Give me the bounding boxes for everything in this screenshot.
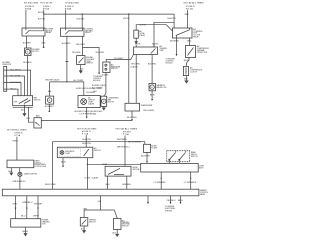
label to engine control module [166,59,176,65]
wire pressure switch down BLU/RED [104,73,106,97]
label indicator light [65,150,75,155]
label light assy [199,165,204,169]
svg-text:HOT AT ALL TIMES: HOT AT ALL TIMES [116,128,139,131]
label mode switch [133,167,140,171]
wire A/C-heater illumination rail [53,142,145,190]
wire panel out 3 GRN/WHT [37,196,39,219]
wire transistor to ground [24,227,26,233]
label A/C compressor clutch relay [193,28,203,39]
svg-text:BLK/YEL: BLK/YEL [168,18,177,20]
wire panel mid out GRN [84,196,117,219]
wire indicator right pin to LT GRN rail [88,158,141,190]
label power transistor [42,220,50,226]
motor M blower motor [25,48,32,56]
svg-text:BLK/YEL: BLK/YEL [45,184,56,186]
fuse 1 [43,6,50,11]
motor M condenser fan motor [101,96,107,106]
label to engine electrical system [165,206,175,213]
wire clutch to ground [186,76,188,81]
switch S thermo switch [80,218,88,227]
wire bus drop BLK/YEL (x128.8) [128,14,130,103]
svg-text:(CALIF): (CALIF) [139,34,145,37]
svg-text:BLU/WHT: BLU/WHT [45,106,55,108]
svg-text:SYSTEM: SYSTEM [165,210,173,212]
wire controller left pin to ground [10,168,12,173]
motor M recirculation control motor [46,96,54,104]
svg-text:OTHERS): OTHERS) [79,113,97,115]
wire panel out 1 GRN [15,196,17,219]
ground G diode [135,41,138,44]
svg-text:YEL/GRN: YEL/GRN [95,52,104,54]
svg-text:BLK/YEL: BLK/YEL [123,18,130,20]
svg-text:THERMOSTAT: THERMOSTAT [141,104,153,107]
svg-text:SWITCH: SWITCH [111,68,118,70]
switch S rear defogger switches (dashed) [167,151,190,162]
label GRN/WHT 2-line [92,84,106,89]
svg-text:BLU/WHT: BLU/WHT [23,43,32,45]
relay K2 condenser fan relay [61,28,85,36]
wire BLK/YEL bus [44,13,174,15]
node bus junction A [43,13,44,14]
wire relay3 right pin to thermal protector [189,38,191,46]
svg-text:SWITCH: SWITCH [122,225,129,227]
svg-text:BLU/RED: BLU/RED [127,117,138,119]
svg-text:YEL/WHT: YEL/WHT [114,58,125,60]
svg-text:PANEL: PANEL [200,193,205,196]
connector heater control panel (long box) [2,189,199,196]
svg-text:ALL OTHERS: ALL OTHERS [74,79,84,82]
switch S heater fan switch [13,96,33,106]
svg-text:RED/WHT (CALIF): RED/WHT (CALIF) [45,79,59,82]
svg-text:BLK/YEL: BLK/YEL [38,18,45,20]
wire relay3 left pin BLK/RED with arrow [176,38,178,54]
wire blower motor to fan switch BLU/BLK [27,56,29,96]
coil A/C compressor clutch [183,66,188,75]
svg-text:HOT IN ON: HOT IN ON [41,2,53,4]
label A/C switch [94,147,101,152]
svg-text:RELAY: RELAY [46,31,52,34]
svg-text:PROTECTOR: PROTECTOR [197,52,208,54]
motor M radiator fan motor [149,83,155,90]
wire light assy pins to panel [161,172,191,189]
wire fuse to relay2 [65,10,67,28]
switch S engine coolant temp switch [77,56,85,65]
svg-text:FAN MOTOR: FAN MOTOR [156,86,167,89]
svg-text:OFF: OFF [14,102,17,104]
switch S A/C pressure switch [103,62,110,73]
ground G aux switch [115,234,119,237]
wire fuse25 to mode switch [124,136,126,167]
svg-text:LT GRN: LT GRN [84,178,91,180]
fuse 4 [65,6,73,11]
junction box A/C wiring [125,103,140,111]
wire junction box down to A/C line with arrow [131,111,133,118]
svg-text:BLK/RED: BLK/RED [170,41,180,43]
svg-text:LT GRN/RED: LT GRN/RED [154,182,167,184]
label radiator fan motor [156,84,167,89]
wire A/C line horizontal [41,120,132,122]
svg-text:FILTER: FILTER [151,147,157,149]
wire defog pins to panel light box [169,151,186,164]
wire fan switch to A/C switch [28,107,34,122]
label fan switch [34,96,41,101]
svg-text:HOT AT ALL TIMES: HOT AT ALL TIMES [184,1,205,4]
node dot [151,99,153,101]
wire protector to clutch [187,58,190,67]
svg-text:MODULE: MODULE [166,63,174,65]
wire fan switch connector strip [13,106,33,108]
wire fuse24 to relay1 [25,10,27,28]
wire diode to ground [135,38,137,41]
svg-text:HOT IN ON OR START: HOT IN ON OR START [77,127,97,130]
label fuse13 block [77,127,97,145]
svg-text:ALL OTHERS: ALL OTHERS [92,86,103,89]
wire relay2 left pin BLU/RED [65,36,68,82]
wire resistor tap 3 [7,83,21,96]
svg-text:BLK/RED: BLK/RED [148,64,157,66]
svg-text:YEL/BLU: YEL/BLU [166,200,176,202]
wire motor to dot [151,91,153,99]
wire motor to dot [48,104,50,110]
box heater panel light assy [141,163,199,172]
label blower motor [32,49,40,53]
svg-text:WHT/BLU: WHT/BLU [117,139,128,141]
label A/C pressure switch [111,63,121,70]
label thermo switch [89,219,97,223]
svg-text:BLU/BLK: BLU/BLK [11,70,23,72]
node bus junction C [128,13,129,14]
fuse 24 [25,6,34,11]
label A/C compressor clutch [190,67,203,74]
diode D1 A/C diode [134,30,139,38]
svg-text:HOT AT ALL TIMES: HOT AT ALL TIMES [24,1,39,4]
svg-text:CONTROLLER: CONTROLLER [35,166,47,168]
svg-text:BLK/YEL: BLK/YEL [82,143,91,145]
svg-text:YEL/GRN: YEL/GRN [76,44,86,46]
svg-text:YEL/GRN: YEL/GRN [72,52,81,54]
label fuse25 block [116,128,139,149]
label condenser fan relay [85,29,93,35]
wire relay1 right pin to node [43,36,45,47]
wire calif/others branch [50,82,84,96]
svg-text:GRN/RED: GRN/RED [122,184,132,186]
wire fuse1 to relay1 [43,10,45,28]
label noise filter [151,145,157,149]
wire branch to thermostat right pin [154,22,174,47]
wire panel out YEL/BLU [170,196,172,202]
label aux switch [122,219,130,227]
svg-text:GRN/WHT: GRN/WHT [34,204,43,206]
label A/C diode [139,30,145,37]
wire fan switch ground pin [23,106,25,114]
wire resistor tap 2 [7,76,25,96]
svg-text:BLU/RED: BLU/RED [141,156,151,158]
label A/C compressor thermal protector [197,45,210,54]
box dash lights brightness controller [7,160,34,168]
label A/C thermostat [160,45,168,52]
svg-text:HOT AT ALL TIMES: HOT AT ALL TIMES [65,1,79,4]
wire indicator left pin to dot [62,158,64,166]
wire relay1 to blower motor BLU/WHT [26,36,28,48]
ground G clutch [185,81,189,84]
label heater control panel [200,189,208,196]
ground G condenser fan motor [102,108,106,111]
ground G controller [10,173,13,176]
label fuse26 block (bottom left) [7,129,28,137]
svg-text:YEL/GRN: YEL/GRN [131,64,141,66]
svg-text:STAT: STAT [160,49,164,52]
wire YEL/WHT pressure switch to thermostat [106,55,133,63]
svg-text:DASH LIGHTS: DASH LIGHTS [24,172,38,175]
wire aux to ground [116,230,118,235]
label blower resistor [3,62,12,66]
wire recirc motor feed [48,82,51,96]
wire A/C switch assembly to A/C line with arrow [86,108,88,118]
switch S A/C switch [34,118,41,128]
wire thermostat bottom-right BLK/RED [151,55,153,84]
ground G thermo switch [82,230,86,233]
svg-text:SWITCH: SWITCH [133,169,140,171]
label LT GRN pair [84,177,99,180]
box aux switch [114,219,122,230]
wire panel out BLU [180,196,182,202]
svg-text:MOTOR: MOTOR [32,51,39,53]
svg-text:BLU/RED: BLU/RED [62,43,71,45]
wire bus drop to relay2 [81,14,83,28]
svg-text:BLK/YEL: BLK/YEL [77,18,85,20]
svg-text:(CALIF): (CALIF) [88,102,94,105]
svg-text:BLK/YEL: BLK/YEL [152,44,158,46]
wire bus corner to relay3 [173,14,175,28]
label to engine control module 2 [93,76,103,82]
wire panel stub arrow [147,196,149,202]
svg-text:BLU/WHT: BLU/WHT [11,82,23,84]
ground G transistor [24,233,28,236]
ground G fan switch [23,113,27,116]
node terminal dot [43,46,45,48]
wire coolant switch to ground [80,65,82,71]
node dots [161,178,162,179]
node dot [62,165,64,167]
svg-text:GRN: GRN [41,42,46,44]
svg-text:RED (CALIF): RED (CALIF) [144,109,155,112]
lamp dash light bulb [18,168,22,177]
label YEL/GRN 2-line [131,64,141,69]
svg-text:BLU/RED: BLU/RED [128,141,142,143]
svg-text:HOT AT ALL TIMES: HOT AT ALL TIMES [7,129,28,132]
switch S thermal protector [186,46,196,58]
label BLU/WHT CALIF BLU/BLK ALL OTHERS [75,110,103,115]
svg-text:CLUTCH: CLUTCH [190,71,198,73]
svg-text:SWITCH: SWITCH [191,156,198,158]
svg-text:BLU/YEL: BLU/YEL [135,44,141,46]
svg-text:SWITCH: SWITCH [94,150,101,152]
ground G coolant switch [79,71,83,74]
svg-text:(CALIF): (CALIF) [131,65,138,68]
node junction BLU/RED [66,81,67,82]
label brightness controller [35,160,47,168]
node dot [49,111,51,113]
wire resistor tap 4 [7,89,18,96]
svg-text:SWITCH: SWITCH [86,63,93,65]
wire resistor tap 1 [7,70,31,96]
svg-text:MOTOR: MOTOR [108,101,115,103]
svg-text:BLU/BLK: BLU/BLK [23,62,32,64]
wire motor to ground [103,106,105,107]
node bus junction B [82,13,83,14]
wire thermostat bottom-left YEL/GRN long [135,55,137,104]
label engine coolant temp switch [86,57,94,65]
wire filter to panel with arrow [146,152,148,161]
wire bulb to panel [19,177,21,190]
wire mode switch pins to panel [108,176,127,189]
wire A/C diode to relay3 [136,25,172,31]
relay K3 A/C compressor clutch relay [173,28,193,38]
svg-text:WHT: WHT [33,216,39,218]
svg-text:RED/BLU: RED/BLU [13,181,27,183]
wire thermo switch to ground [83,226,85,230]
svg-text:RELAY: RELAY [85,31,91,34]
filter noise filter box [144,144,151,152]
wire fuse26 to brightness controller [16,137,18,160]
box power transistor [11,219,41,227]
relay K1 blower motor relay [22,28,45,36]
wire panel out 2 GRN/BLU [26,196,28,219]
wire fuse15 to relay3 [186,10,188,28]
svg-text:GRN/BLU: GRN/BLU [22,202,33,204]
svg-text:RESISTOR: RESISTOR [3,64,12,66]
svg-text:SWITCH: SWITCH [34,99,41,101]
svg-text:BLU/RED: BLU/RED [102,75,109,77]
resistor R blower resistor [4,66,7,91]
svg-text:(CALIF): (CALIF) [92,177,99,180]
svg-text:SWITCH: SWITCH [89,221,96,223]
wire relay2 right pin YEL/GRN [83,36,100,73]
svg-text:BLU/YEL: BLU/YEL [11,76,22,78]
lamp indicator light box [57,147,93,158]
svg-text:WHT/BLU: WHT/BLU [117,147,131,149]
svg-text:LT GRN/BLK: LT GRN/BLK [184,182,198,184]
svg-text:RELAY: RELAY [193,36,199,39]
label blower motor relay [46,29,54,35]
switch S mode switch [105,166,131,176]
svg-text:BLK/YEL: BLK/YEL [38,12,44,14]
node junction [87,164,88,165]
wire fuse13 to indicator light box [85,135,87,147]
svg-text:BLK/YEL: BLK/YEL [82,139,91,141]
svg-text:LIGHT: LIGHT [65,153,70,155]
label A/C switch assembly text [88,97,95,106]
label condenser fan motor [108,98,120,104]
label defogger switch [191,151,198,158]
thermostat A/C thermostat [134,45,158,55]
fuse 15 [186,6,194,11]
svg-text:BLU/YEL: BLU/YEL [140,24,146,26]
switch S A/C switch assembly with bulb [78,96,100,108]
svg-text:MODULE: MODULE [93,80,101,82]
